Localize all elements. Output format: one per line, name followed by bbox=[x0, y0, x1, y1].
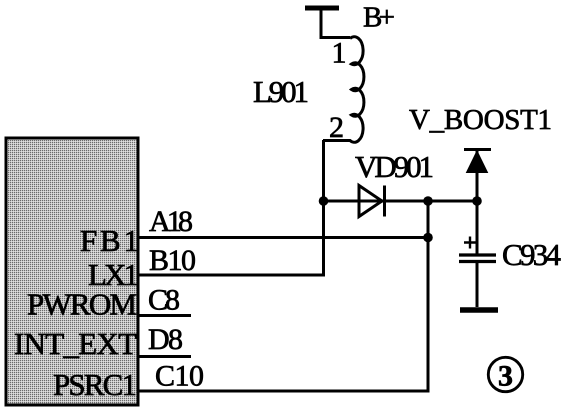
svg-text:A18: A18 bbox=[149, 205, 193, 238]
polarity plus sign bbox=[464, 237, 476, 249]
svg-text:2: 2 bbox=[329, 111, 344, 144]
capacitor C934 bbox=[476, 201, 479, 254]
IC block bbox=[6, 138, 138, 405]
wire cathode down to PSRC1 bbox=[427, 201, 430, 391]
svg-text:INT_EXT: INT_EXT bbox=[14, 326, 137, 361]
svg-text:V_BOOST1: V_BOOST1 bbox=[409, 104, 552, 136]
svg-text:3: 3 bbox=[498, 360, 513, 393]
inductor L901 bbox=[323, 37, 364, 143]
svg-text:L901: L901 bbox=[253, 74, 309, 109]
svg-text:PSRC1: PSRC1 bbox=[53, 367, 137, 402]
junction node FB1 bbox=[423, 233, 433, 243]
stub D8 bbox=[139, 355, 191, 358]
junction node V_BOOST1/C934 bbox=[472, 196, 482, 206]
wire B+ to inductor bbox=[321, 8, 350, 38]
svg-text:D8: D8 bbox=[148, 323, 183, 356]
svg-text:C934: C934 bbox=[502, 237, 562, 272]
svg-text:B10: B10 bbox=[149, 244, 196, 277]
svg-text:VD901: VD901 bbox=[355, 149, 434, 184]
junction node diode cathode bbox=[423, 196, 433, 206]
junction node at inductor/diode bbox=[319, 196, 329, 206]
svg-text:FB1: FB1 bbox=[80, 223, 139, 258]
svg-text:C10: C10 bbox=[155, 360, 204, 393]
circled 3 marker bbox=[488, 357, 522, 391]
wire PSRC1 bbox=[139, 390, 430, 393]
svg-text:1: 1 bbox=[332, 37, 347, 70]
net pointer V_BOOST1 bbox=[476, 150, 479, 201]
wire anode node to diode bbox=[324, 200, 478, 203]
wire inductor pin2 down to LX1 bbox=[322, 140, 325, 275]
svg-text:C8: C8 bbox=[148, 284, 180, 317]
wire LX1 bbox=[139, 274, 325, 277]
diode VD901 bbox=[359, 186, 382, 217]
svg-text:PWROM: PWROM bbox=[27, 287, 137, 322]
stub C8 bbox=[139, 314, 191, 317]
svg-text:B+: B+ bbox=[363, 2, 395, 34]
ground bar terminal bbox=[460, 307, 498, 313]
wire FB1 bbox=[139, 236, 428, 239]
B+ terminal bar bbox=[305, 6, 339, 11]
